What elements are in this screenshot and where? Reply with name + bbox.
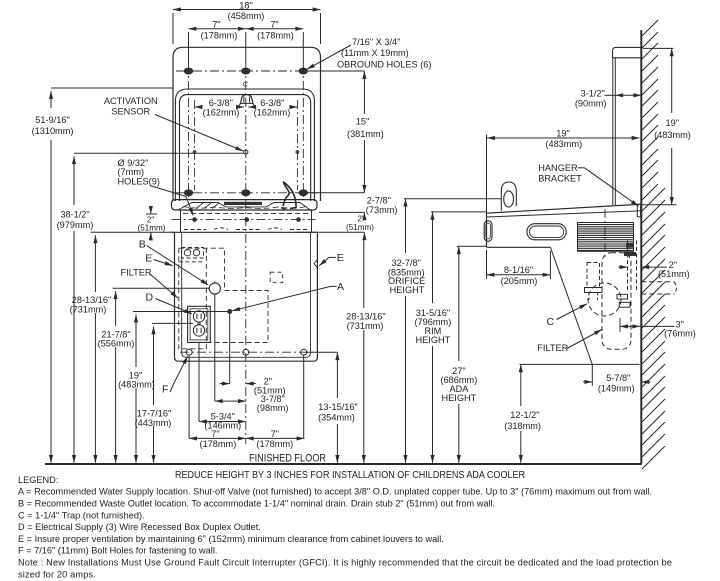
svg-text:A: A	[337, 281, 344, 293]
obround hole bottom-left	[184, 190, 192, 196]
svg-text:HANGER: HANGER	[538, 163, 578, 173]
svg-text:F: F	[162, 383, 168, 395]
cooler front edge	[486, 213, 488, 247]
svg-text:(73mm): (73mm)	[366, 205, 398, 215]
dimension 31-5/16 (796mm) rim height	[415, 212, 487, 463]
svg-text:(731mm): (731mm)	[70, 304, 107, 314]
obround hole bottom-middle	[242, 190, 250, 196]
F bolt hole left	[186, 349, 192, 438]
dimension 7in right (178mm)	[246, 19, 303, 64]
dimension 7in bottom-right (178mm)	[246, 429, 305, 449]
dimension 19 left side view (483mm)	[487, 128, 640, 213]
hanger bracket label	[538, 163, 584, 183]
leader D	[156, 299, 193, 314]
svg-text:C = 1-1/4" Trap (not furnished: C = 1-1/4" Trap (not furnished).	[18, 510, 145, 520]
svg-text:FINISHED FLOOR: FINISHED FLOOR	[249, 452, 326, 464]
svg-text:A = Recommended Water Supply l: A = Recommended Water Supply location. S…	[18, 487, 652, 497]
skirt below basin	[181, 210, 312, 232]
dimension 8-1/16 (205mm)	[487, 250, 551, 286]
dimension 51-9/16 (1310mm)	[32, 91, 74, 463]
hole 9/32 row2 left	[193, 151, 196, 154]
dimension 3-1/2 (90mm)	[575, 88, 641, 108]
svg-text:(11mm X 19mm): (11mm X 19mm)	[341, 48, 409, 58]
obround hole top-left	[184, 68, 192, 74]
svg-text:7": 7"	[270, 19, 278, 29]
centerline vertical 6-3/8 right column	[296, 100, 298, 190]
inner recess panel inner line	[180, 95, 311, 201]
centerline through grille	[604, 209, 606, 257]
cabinet right edge notch	[314, 260, 317, 268]
cooler top slope	[487, 204, 641, 213]
wall plate outline	[173, 47, 321, 201]
svg-text:28-13/16": 28-13/16"	[72, 295, 112, 305]
activation sensor hole	[244, 150, 248, 154]
leader E left	[154, 260, 173, 266]
dimension 2in right of cabinet (51mm)	[346, 214, 374, 239]
svg-text:3-1/2": 3-1/2"	[581, 88, 605, 98]
svg-text:51-9/16": 51-9/16"	[35, 115, 69, 125]
extension line cabinet top right	[297, 231, 365, 233]
svg-text:7": 7"	[211, 429, 219, 439]
dimension 28-13/16 left (731mm)	[70, 235, 112, 463]
waste outlet circle B	[209, 282, 220, 402]
centerline vertical right hole column	[302, 64, 304, 199]
svg-text:HEIGHT: HEIGHT	[442, 393, 477, 403]
svg-text:(178mm): (178mm)	[256, 439, 293, 449]
dimension 2in left (51mm)	[138, 207, 166, 240]
svg-text:(162mm): (162mm)	[254, 107, 291, 117]
svg-text:5-7/8": 5-7/8"	[606, 373, 630, 383]
svg-text:ACTIVATION: ACTIVATION	[104, 96, 158, 106]
leader C	[557, 304, 588, 320]
basin outline	[172, 200, 318, 210]
dimension 5-7/8 (149mm)	[583, 373, 651, 393]
svg-text:(162mm): (162mm)	[203, 107, 240, 117]
svg-text:LEGEND:: LEGEND:	[18, 475, 58, 485]
F bolt hole right	[301, 349, 307, 438]
wall hatching	[642, 20, 665, 469]
svg-text:(51mm): (51mm)	[658, 269, 690, 279]
cooler top second line	[487, 211, 641, 217]
svg-text:8-1/16": 8-1/16"	[504, 265, 533, 275]
svg-text:7/16" X 3/4": 7/16" X 3/4"	[352, 37, 400, 47]
svg-text:B: B	[139, 238, 146, 250]
F bolt hole middle	[243, 349, 249, 355]
dashed drain rough-in rect	[182, 248, 204, 259]
dimension 21-7/8 (556mm)	[98, 291, 135, 463]
svg-text:18": 18"	[239, 0, 252, 10]
svg-text:HEIGHT: HEIGHT	[390, 285, 425, 295]
cooler sloped underside	[550, 247, 592, 364]
extension line 38-1/2 top (sensor height)	[74, 152, 244, 154]
svg-text:(483mm): (483mm)	[545, 139, 582, 149]
cabinet top edge	[172, 231, 318, 233]
small dashed square vent	[270, 272, 282, 283]
svg-text:(149mm): (149mm)	[598, 384, 635, 394]
drain flange circle left	[184, 250, 190, 256]
svg-text:15": 15"	[356, 117, 369, 127]
inner recess panel outer line	[175, 89, 314, 201]
svg-text:Note : New Installations Must: Note : New Installations Must Use Ground…	[18, 558, 672, 568]
cooler bottom edge	[487, 246, 551, 248]
dimension 5-3/4 (146mm)	[199, 412, 246, 431]
svg-text:(979mm): (979mm)	[57, 220, 94, 230]
dimension 6-3/8 left (162mm)	[195, 98, 244, 117]
extension line hole row right	[307, 192, 365, 194]
dimension 28-13/16 right (731mm)	[346, 240, 386, 463]
svg-text:HOLES(9): HOLES(9)	[118, 177, 160, 187]
dimension 18in (458mm)	[173, 0, 321, 44]
dashed trap circle	[588, 283, 621, 316]
svg-text:(483mm): (483mm)	[118, 380, 155, 390]
dimension 13-15/16 (354mm)	[307, 352, 358, 463]
leader FILTER front	[150, 274, 178, 299]
drain pipe at wall dashed	[617, 241, 637, 333]
svg-text:(51mm): (51mm)	[346, 223, 374, 232]
wall line	[640, 30, 642, 464]
dimension 17-7/16 (443mm)	[135, 326, 172, 463]
svg-text:(381mm): (381mm)	[347, 129, 384, 139]
svg-text:OBROUND HOLES (6): OBROUND HOLES (6)	[337, 60, 431, 70]
hole row3 right dot	[297, 218, 301, 222]
svg-text:SENSOR: SENSOR	[111, 107, 150, 117]
hole row3 middle dot	[245, 218, 249, 222]
dimension 7in left (178mm)	[189, 19, 246, 64]
obround hole bottom-right	[299, 190, 307, 196]
dimension 32-7/8 (835mm) orifice height	[388, 199, 502, 463]
side louver oval	[527, 224, 566, 240]
dashed filter housing tall rect	[602, 253, 631, 349]
centerline horizontal through top obround holes	[176, 70, 318, 72]
basin interior contour	[178, 203, 310, 210]
svg-text:(205mm): (205mm)	[501, 276, 538, 286]
svg-text:(318mm): (318mm)	[504, 421, 541, 431]
activation sensor label	[104, 96, 158, 116]
vertical ref at diagonal end	[591, 364, 593, 386]
svg-text:(731mm): (731mm)	[347, 321, 384, 331]
cabinet inner panel line	[182, 232, 311, 357]
mounting panel front face	[613, 58, 616, 205]
dimension 27 (686mm) ADA height	[441, 246, 487, 463]
svg-text:(1310mm): (1310mm)	[32, 126, 74, 136]
dashed tall rect left	[179, 248, 207, 349]
svg-text:(178mm): (178mm)	[257, 31, 294, 41]
svg-text:E: E	[337, 252, 344, 264]
leader activation sensor	[155, 115, 243, 152]
extension orifice height	[404, 198, 501, 200]
extension line cabinet top left	[91, 231, 175, 233]
extension line 28-13/16 (waste height)	[113, 287, 209, 289]
obround hole top-middle	[242, 68, 250, 74]
svg-text:BRACKET: BRACKET	[538, 173, 582, 183]
svg-text:(90mm): (90mm)	[575, 99, 607, 109]
svg-text:sized for 20 amps.: sized for 20 amps.	[18, 569, 96, 579]
extension line basin bottom right	[319, 211, 364, 213]
dashed line below drain	[179, 261, 204, 263]
drain flange circle right	[193, 250, 199, 256]
leader FILTER side	[567, 330, 602, 349]
hanger bracket at wall	[637, 204, 640, 217]
leader E right	[319, 257, 336, 265]
svg-text:(98mm): (98mm)	[257, 403, 289, 413]
label holes(9)	[118, 158, 160, 187]
svg-text:E: E	[145, 252, 152, 264]
svg-text:HEIGHT: HEIGHT	[416, 335, 451, 345]
centerline F bolt row	[180, 351, 316, 353]
leader B	[147, 246, 209, 286]
front push button	[484, 221, 492, 242]
extension line 17-7/16 (outlet height)	[152, 322, 193, 324]
dimension 2 right (51mm)	[619, 260, 690, 279]
dashed recess outline stepped	[179, 248, 268, 342]
hole row3 left dot	[193, 218, 197, 222]
extension line 51-9/16 top	[51, 87, 173, 89]
leader A	[232, 286, 336, 310]
leader obround holes note	[307, 45, 351, 69]
leader hanger bracket	[585, 168, 639, 206]
centerline horizontal bottom holes row	[176, 192, 318, 194]
side bubbler	[501, 182, 516, 211]
label obround holes	[337, 37, 431, 70]
centerline horizontal middle holes row	[172, 219, 316, 221]
svg-text:(354mm): (354mm)	[318, 412, 355, 422]
dimension 2-7/8 (73mm)	[364, 186, 397, 220]
svg-text:FILTER: FILTER	[121, 268, 152, 278]
svg-text:2-7/8": 2-7/8"	[367, 195, 391, 205]
svg-text:(178mm): (178mm)	[201, 31, 238, 41]
svg-text:(76mm): (76mm)	[664, 329, 696, 339]
dimension 19 (483mm)	[118, 315, 155, 463]
svg-text:D: D	[146, 292, 154, 304]
obround hole top-right	[299, 68, 307, 74]
svg-text:FILTER: FILTER	[537, 343, 568, 353]
svg-text:7": 7"	[212, 19, 220, 29]
spout (flexi-guard bubbler) front view	[283, 182, 296, 208]
vent grille	[578, 223, 634, 252]
svg-text:13-15/16": 13-15/16"	[318, 402, 358, 412]
svg-text:2": 2"	[358, 214, 366, 223]
filter cartridge dashed	[585, 263, 603, 301]
svg-text:(458mm): (458mm)	[228, 11, 265, 21]
svg-text:REDUCE HEIGHT BY 3 INCHES FOR: REDUCE HEIGHT BY 3 INCHES FOR INSTALLATI…	[175, 470, 525, 481]
svg-text:D = Electrical Supply (3) Wire: D = Electrical Supply (3) Wire Recessed …	[18, 522, 261, 532]
extension line 12-1/2 top	[520, 363, 640, 365]
extension line 21-7/8 (supply height)	[133, 311, 228, 313]
leader F	[170, 356, 188, 392]
basin hatch ticks	[196, 203, 219, 209]
svg-text:(483mm): (483mm)	[654, 130, 691, 140]
svg-text:(51mm): (51mm)	[138, 224, 166, 233]
svg-text:B = Recommended Waste Outlet l: B = Recommended Waste Outlet location. T…	[18, 499, 495, 509]
svg-text:(178mm): (178mm)	[200, 439, 237, 449]
dimension 15in (381mm)	[307, 71, 384, 186]
dimension 12-1/2 (318mm)	[504, 364, 541, 463]
dimension 3-7/8 (98mm)	[215, 394, 289, 413]
svg-text:(146mm): (146mm)	[204, 420, 241, 430]
dimension 19 right side (483mm)	[641, 48, 691, 204]
hole 9/32 row2 right	[296, 151, 299, 154]
svg-text:F = 7/16" (11mm) Bolt Holes fo: F = 7/16" (11mm) Bolt Holes for fastenin…	[18, 546, 217, 556]
dimension 2in (51mm) bottom	[220, 377, 286, 396]
basin wavy inner line	[183, 207, 306, 209]
svg-text:7": 7"	[271, 429, 279, 439]
basin drain slot	[224, 202, 262, 205]
svg-text:12-1/2": 12-1/2"	[510, 410, 539, 420]
centerline vertical center column full height	[245, 64, 247, 444]
water supply dot A	[228, 310, 232, 384]
cabinet outline	[175, 232, 318, 361]
bubbler front view	[239, 95, 255, 107]
svg-text:C: C	[547, 316, 555, 328]
dimension 6-3/8 right (162mm)	[248, 98, 297, 117]
svg-text:(443mm): (443mm)	[135, 418, 172, 428]
dimension 7in bottom-left (178mm)	[189, 429, 246, 449]
centerline vertical 6-3/8 left column	[194, 100, 196, 190]
floor line	[45, 463, 642, 465]
leader holes(9)	[150, 186, 193, 216]
svg-text:19": 19"	[666, 118, 679, 128]
dimension 3 (76mm)	[620, 319, 696, 338]
mounting panel top cap	[613, 47, 642, 57]
dimension 38-1/2 (979mm)	[57, 156, 94, 463]
svg-text:E = Insure proper ventilation: E = Insure proper ventilation by maintai…	[18, 534, 444, 544]
svg-text:38-1/2": 38-1/2"	[60, 209, 89, 219]
svg-text:(556mm): (556mm)	[98, 339, 135, 349]
dashed waste pipe into wall	[641, 282, 676, 294]
centerline vertical left hole column	[188, 64, 190, 199]
duplex outlet D	[188, 306, 211, 421]
svg-text:19": 19"	[556, 128, 569, 138]
